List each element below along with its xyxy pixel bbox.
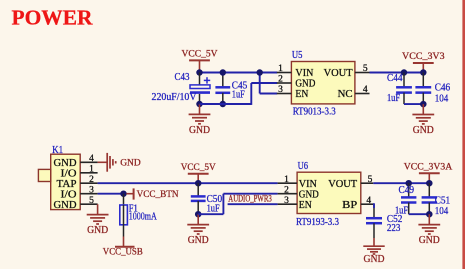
wire BP to C52 — [372, 203, 375, 208]
svg-text:EN: EN — [299, 199, 312, 211]
svg-text:GND: GND — [188, 235, 209, 246]
node: C45 bottom junction — [220, 101, 227, 108]
capacitor C44 1uF — [387, 72, 412, 104]
K1 pin 5 GND — [54, 196, 98, 211]
capacitor C43 (electrolytic 220uF/10V) — [152, 71, 211, 104]
U5 pin 2 GND — [277, 75, 316, 90]
svg-text:U5: U5 — [292, 49, 303, 61]
U5 pin 3 EN — [277, 85, 309, 100]
wire U6 GND to C50 ground — [198, 194, 277, 215]
node: C46 bottom junction — [420, 101, 427, 108]
svg-text:2: 2 — [284, 185, 289, 195]
K1 pin 3 I/O — [61, 185, 98, 200]
svg-text:EN: EN — [295, 88, 308, 100]
svg-text:GND: GND — [54, 199, 77, 211]
U6 pin 5 VOUT — [328, 175, 373, 190]
svg-text:GND: GND — [364, 254, 385, 265]
node: C43 bottom junction — [196, 101, 203, 108]
svg-text:VCC_3V3: VCC_3V3 — [402, 51, 445, 62]
power port VCC_5V (bottom) — [181, 162, 216, 183]
fuse F1 1000mA — [120, 194, 157, 237]
svg-text:K1: K1 — [52, 144, 63, 156]
wire C44-C46 ground link — [404, 103, 423, 105]
ground below C52 — [363, 238, 384, 265]
svg-text:VCC_5V: VCC_5V — [181, 162, 216, 173]
capacitor C51 104 — [422, 183, 451, 217]
ground below C46 — [412, 104, 434, 136]
svg-text:VCC_USB: VCC_USB — [103, 246, 143, 257]
K1 pin 1 I/O — [61, 164, 98, 179]
ground below C50 — [187, 214, 209, 246]
svg-text:1uF: 1uF — [207, 203, 220, 215]
wire K1 pin3 to VCC_BTN — [98, 193, 124, 195]
svg-text:VCC_3V3A: VCC_3V3A — [404, 161, 453, 172]
power port VCC_BTN — [126, 188, 178, 199]
svg-text:3: 3 — [284, 196, 289, 206]
svg-text:C49: C49 — [399, 184, 415, 196]
svg-text:4: 4 — [89, 154, 94, 164]
ground at K1 pin 5 — [87, 204, 109, 236]
svg-text:4: 4 — [366, 196, 371, 206]
node VCC_BTN — [120, 190, 127, 197]
svg-text:4: 4 — [363, 85, 368, 95]
svg-text:C46: C46 — [435, 81, 451, 93]
wire ground rail (C43-C45 to U5.GND) — [200, 83, 278, 105]
svg-text:VOUT: VOUT — [324, 67, 353, 79]
svg-text:1: 1 — [278, 64, 283, 74]
node: VCC_3V3 junction — [420, 69, 427, 76]
wire EN tie to VIN — [260, 73, 278, 94]
U5 pin 5 VOUT — [324, 64, 370, 79]
svg-text:GND: GND — [413, 125, 434, 136]
svg-text:5: 5 — [363, 64, 368, 74]
svg-text:GND: GND — [189, 125, 210, 136]
U6 pin 3 EN — [278, 196, 312, 211]
svg-text:104: 104 — [435, 205, 449, 217]
node: C50 bottom junction — [195, 211, 202, 218]
capacitor C50 1uF — [191, 183, 223, 214]
capacitor C52 223 — [366, 208, 402, 238]
svg-text:1uF: 1uF — [232, 89, 245, 101]
U6 pin 4 BP — [342, 196, 373, 211]
power port VCC_3V3 — [402, 51, 445, 72]
svg-text:5: 5 — [89, 196, 94, 206]
svg-text:VOUT: VOUT — [328, 178, 357, 190]
svg-text:GND: GND — [120, 158, 141, 169]
svg-text:1: 1 — [89, 164, 94, 174]
wire VOUT to VCC_3V3A — [373, 182, 429, 184]
svg-text:220uF/10V: 220uF/10V — [152, 91, 197, 103]
wire C49-C51 ground link — [409, 213, 430, 215]
svg-text:104: 104 — [435, 93, 449, 105]
capacitor C49 1uF — [395, 183, 416, 216]
svg-text:C44: C44 — [387, 72, 403, 84]
svg-text:AUDIO_PWR3: AUDIO_PWR3 — [228, 194, 272, 205]
U5 pin 1 VIN — [277, 64, 314, 79]
svg-text:1uF: 1uF — [387, 92, 400, 104]
K1 pin 4 GND — [54, 154, 98, 169]
wire EN net stub — [228, 203, 278, 205]
svg-text:223: 223 — [387, 222, 401, 234]
svg-text:1000mA: 1000mA — [129, 210, 157, 222]
connector K1 (USB) — [38, 144, 80, 210]
ground at K1 pin 4 (rotated) — [98, 153, 141, 172]
node: C45 top junction — [220, 69, 227, 76]
svg-text:3: 3 — [89, 185, 94, 195]
node: VCC_5V/C43 junction — [196, 69, 203, 76]
svg-text:NC: NC — [338, 88, 353, 100]
node: VCC_5V/C50 junction — [195, 180, 202, 187]
svg-text:C43: C43 — [175, 71, 190, 83]
wire VCC_5V top rail — [200, 72, 278, 74]
power port VCC_USB — [103, 237, 143, 258]
svg-text:2: 2 — [89, 175, 94, 185]
power port VCC_3V3A — [404, 161, 453, 183]
node: C44 top junction — [401, 69, 408, 76]
U6 pin 1 VIN — [278, 175, 317, 190]
svg-text:RT9193-3.3: RT9193-3.3 — [296, 216, 339, 228]
svg-text:U6: U6 — [298, 160, 309, 172]
capacitor C45 1uF — [215, 73, 247, 105]
svg-text:GND: GND — [419, 235, 440, 246]
regulator U6 RT9193-3.3 — [296, 160, 361, 228]
capacitor C46 104 — [415, 73, 450, 105]
svg-text:2: 2 — [278, 75, 283, 85]
node: EN tie junction — [256, 69, 263, 76]
svg-text:POWER: POWER — [12, 5, 93, 29]
U6 pin 2 GND — [278, 185, 319, 200]
node: C49 top junction — [405, 180, 412, 187]
wire K1 TAP to U6 VIN (VCC_5V rail) — [98, 182, 278, 184]
svg-text:3: 3 — [278, 85, 283, 95]
node: VCC_3V3A junction — [426, 180, 433, 187]
ground below C43 — [189, 104, 211, 136]
svg-text:1: 1 — [284, 175, 289, 185]
svg-text:5: 5 — [368, 175, 373, 185]
K1 pin 2 TAP — [57, 175, 98, 190]
U5 pin 4 NC — [338, 85, 370, 100]
node: C51 bottom junction — [426, 211, 433, 218]
regulator U5 RT9013-3.3 — [291, 49, 355, 117]
ground below C51 — [418, 214, 440, 246]
svg-text:VCC_BTN: VCC_BTN — [137, 189, 179, 200]
svg-text:RT9013-3.3: RT9013-3.3 — [293, 106, 336, 118]
svg-text:VCC_5V: VCC_5V — [182, 49, 218, 60]
power port VCC_5V (top) — [182, 49, 218, 73]
svg-text:GND: GND — [87, 225, 108, 236]
wire VOUT to VCC_3V3 — [370, 72, 424, 74]
svg-text:BP: BP — [342, 199, 357, 211]
